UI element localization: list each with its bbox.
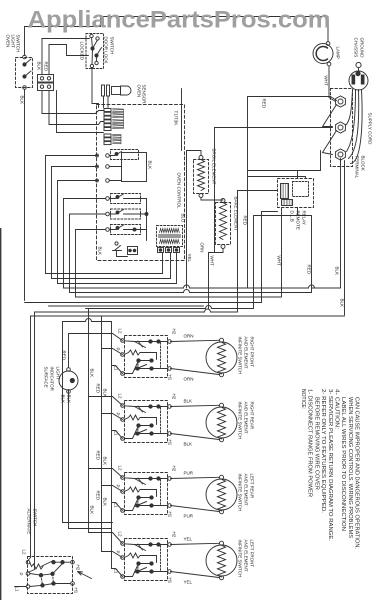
wire feeder vertical A bbox=[88, 309, 90, 533]
svg-text:TERMINAL: TERMINAL bbox=[355, 156, 360, 179]
svg-text:YEL: YEL bbox=[187, 254, 192, 263]
svg-text:SUPPLY CORD: SUPPLY CORD bbox=[368, 113, 373, 146]
wires D.L.B relay feeds bbox=[238, 151, 321, 191]
svg-text:REMOTE: REMOTE bbox=[296, 211, 301, 230]
wires oven sensor to control bbox=[103, 96, 105, 108]
wire to locked contact bbox=[49, 45, 89, 75]
wire nested bus 5 bbox=[70, 214, 312, 293]
svg-text:RED: RED bbox=[44, 62, 49, 72]
terminal crossover diagonals bbox=[323, 105, 337, 155]
wires connector to control connector bbox=[42, 91, 104, 114]
svg-text:PUR: PUR bbox=[184, 514, 194, 519]
oven control connector pins P3 bbox=[104, 134, 121, 145]
svg-text:RED: RED bbox=[62, 351, 67, 361]
scan edge artifact left bbox=[0, 228, 1, 600]
oven sensor bbox=[102, 85, 147, 105]
door lock switch S2 bbox=[80, 34, 115, 69]
element left rear R5 bbox=[206, 474, 255, 514]
svg-text:SURFACE: SURFACE bbox=[44, 367, 49, 388]
svg-text:SWITCH: SWITCH bbox=[33, 509, 38, 527]
svg-text:BLK: BLK bbox=[61, 395, 66, 404]
svg-text:LAMP: LAMP bbox=[336, 47, 341, 59]
wire nested bus 6 bbox=[76, 230, 282, 298]
arrow to alternate switch bbox=[78, 572, 92, 579]
oven control transformer T1 bbox=[157, 226, 183, 253]
svg-text:BLK: BLK bbox=[103, 457, 108, 466]
svg-text:L2: L2 bbox=[22, 550, 27, 556]
svg-text:BLK: BLK bbox=[103, 389, 108, 398]
wire relay bottoms collector bbox=[254, 216, 298, 309]
svg-text:H2: H2 bbox=[172, 329, 177, 335]
wire broil top loop YEL bbox=[187, 151, 202, 289]
svg-text:H1: H1 bbox=[168, 440, 173, 446]
svg-text:H1: H1 bbox=[74, 588, 79, 594]
wire lamp WHT down bbox=[324, 66, 336, 102]
svg-text:BLK: BLK bbox=[37, 62, 42, 71]
element right front R3 bbox=[206, 337, 255, 377]
svg-text:SENSOR: SENSOR bbox=[142, 85, 147, 105]
svg-text:BLK: BLK bbox=[20, 96, 25, 105]
svg-text:H1: H1 bbox=[168, 512, 173, 518]
wire surface light top bbox=[69, 334, 123, 368]
svg-text:ORN: ORN bbox=[184, 334, 194, 339]
svg-text:BLK: BLK bbox=[103, 498, 108, 507]
wire feeder vertical D pair bbox=[63, 322, 113, 529]
surface indicator light DS2 bbox=[44, 351, 79, 404]
wire nested bus 2 bbox=[52, 167, 171, 279]
svg-text:INFINITE SWITCH: INFINITE SWITCH bbox=[238, 402, 243, 440]
infinite switch left rear S6 bbox=[114, 466, 177, 518]
wire BLK terminal down right side bbox=[312, 159, 341, 289]
svg-text:RELAY: RELAY bbox=[302, 211, 307, 225]
wire L1 BLK right side down bbox=[340, 161, 345, 316]
svg-text:BLK: BLK bbox=[335, 267, 340, 276]
svg-text:INFINITE SWITCH: INFINITE SWITCH bbox=[238, 540, 243, 578]
infinite switch right rear S5 bbox=[114, 394, 177, 446]
svg-text:CHASSIS: CHASSIS bbox=[354, 38, 359, 58]
wire broil bottom to bake top bbox=[201, 198, 223, 201]
svg-text:LIGHT: LIGHT bbox=[11, 35, 16, 49]
svg-text:AND ELEMENT: AND ELEMENT bbox=[244, 337, 249, 369]
svg-text:WHT: WHT bbox=[277, 256, 282, 266]
svg-text:GROUND: GROUND bbox=[360, 38, 365, 59]
element right rear R4 bbox=[206, 402, 255, 442]
svg-text:BLK: BLK bbox=[184, 442, 193, 447]
svg-text:3- SERVICER PLEASE RETURN DIAG: 3- SERVICER PLEASE RETURN DIAGRAM TO RAN… bbox=[327, 389, 333, 541]
svg-text:RED: RED bbox=[262, 99, 267, 109]
wire BLK from oven light switch down left side bbox=[20, 89, 25, 300]
svg-text:BLK: BLK bbox=[98, 247, 103, 256]
svg-text:YEL: YEL bbox=[184, 580, 193, 585]
svg-text:L2: L2 bbox=[118, 532, 123, 538]
wires YEL to element left front bbox=[171, 537, 220, 585]
oven control module A1 bbox=[97, 105, 186, 261]
oven control connector pins P1 bbox=[104, 109, 124, 131]
wires ORN to element right front bbox=[171, 334, 220, 382]
svg-text:BLOCK: BLOCK bbox=[361, 156, 366, 171]
svg-text:RED: RED bbox=[96, 451, 101, 461]
svg-text:BLK: BLK bbox=[67, 395, 72, 404]
svg-text:H2: H2 bbox=[76, 565, 81, 571]
wires PUR to element left rear bbox=[171, 471, 220, 519]
hop mark bus 308 bbox=[206, 306, 212, 309]
svg-text:RIGHT FRONT: RIGHT FRONT bbox=[250, 337, 255, 368]
svg-text:BLK: BLK bbox=[90, 369, 95, 378]
svg-text:1- DISCONNECT RANGE FROM POWER: 1- DISCONNECT RANGE FROM POWER bbox=[307, 389, 313, 497]
svg-text:P: P bbox=[116, 485, 121, 488]
wire nested bus 3 bbox=[58, 181, 177, 284]
svg-text:OVEN: OVEN bbox=[6, 35, 11, 48]
svg-text:AppliancePartsPros.com: AppliancePartsPros.com bbox=[28, 7, 331, 34]
svg-text:H1: H1 bbox=[168, 578, 173, 584]
element left front R6 bbox=[206, 540, 255, 580]
svg-text:RIGHT REAR: RIGHT REAR bbox=[250, 402, 255, 430]
svg-text:L2: L2 bbox=[118, 394, 123, 400]
svg-text:INFINITE SWITCH: INFINITE SWITCH bbox=[238, 337, 243, 375]
svg-text:INFINITE SWITCH: INFINITE SWITCH bbox=[238, 474, 243, 512]
wire feeder vertical B bbox=[101, 316, 103, 552]
infinite switch right front S4 bbox=[114, 329, 177, 381]
svg-text:LIGHT: LIGHT bbox=[56, 367, 61, 381]
svg-text:H1: H1 bbox=[168, 375, 173, 381]
wire nested bus 4 bbox=[64, 199, 339, 289]
broil element R1 bbox=[194, 149, 217, 198]
wire feeder vertical C bbox=[111, 322, 113, 569]
svg-text:AND ELEMENT: AND ELEMENT bbox=[244, 540, 249, 572]
svg-text:L1: L1 bbox=[15, 587, 20, 593]
svg-text:OVEN CONTROL: OVEN CONTROL bbox=[177, 173, 182, 210]
svg-text:BLK: BLK bbox=[148, 161, 153, 170]
svg-text:RED: RED bbox=[307, 265, 312, 275]
svg-text:BEFORE REMOVING WIRE COVER: BEFORE REMOVING WIRE COVER bbox=[313, 397, 319, 490]
infinite switch left front S7 bbox=[114, 532, 177, 584]
oven light switch S1 bbox=[6, 35, 33, 90]
wires feeders left front bbox=[89, 533, 123, 577]
svg-text:RED: RED bbox=[96, 491, 101, 501]
wire door lock to control bbox=[92, 68, 99, 108]
svg-text:H2: H2 bbox=[172, 532, 177, 538]
svg-text:LEFT REAR: LEFT REAR bbox=[250, 474, 255, 499]
svg-text:SWITCH: SWITCH bbox=[16, 35, 21, 53]
hop marks bus 4 bbox=[184, 285, 315, 288]
svg-text:P: P bbox=[116, 348, 121, 351]
svg-text:OVEN: OVEN bbox=[137, 85, 142, 98]
svg-text:WHT: WHT bbox=[324, 76, 329, 86]
svg-text:RED: RED bbox=[96, 384, 101, 394]
svg-text:4- CAUTION:: 4- CAUTION: bbox=[334, 389, 340, 429]
oven control door switch contacts bbox=[113, 242, 138, 257]
svg-text:DOOR LOCK: DOOR LOCK bbox=[104, 37, 109, 64]
svg-text:H2: H2 bbox=[172, 394, 177, 400]
D.L.B. remote relay K5 bbox=[278, 179, 314, 230]
wire bake bottom WHT bbox=[209, 128, 224, 309]
bake element R2 bbox=[200, 197, 239, 253]
svg-text:ORN: ORN bbox=[200, 243, 205, 253]
svg-text:H2: H2 bbox=[172, 466, 177, 472]
wire D.L.B relay RED down bbox=[298, 208, 312, 293]
svg-text:BLK: BLK bbox=[90, 506, 95, 515]
wire bus row 311.5 bbox=[35, 191, 238, 313]
svg-text:INDICATOR: INDICATOR bbox=[50, 367, 55, 392]
wire bus row 321 bbox=[63, 321, 112, 323]
wires feeders left rear bbox=[89, 469, 123, 511]
wire to door lock switch bbox=[42, 39, 90, 75]
oven control relays K2 K3 K4 bbox=[98, 194, 149, 256]
svg-text:LABEL ALL WIRES PRIOR TO DISCO: LABEL ALL WIRES PRIOR TO DISCONNECTION bbox=[340, 397, 346, 531]
svg-text:D.L.B: D.L.B bbox=[290, 211, 295, 222]
terminal block TB1 bbox=[331, 89, 366, 179]
wires BLK to element right rear bbox=[171, 399, 220, 447]
svg-text:P: P bbox=[116, 551, 121, 554]
svg-text:L2: L2 bbox=[118, 329, 123, 335]
wire nested bus 1 bbox=[46, 156, 163, 274]
wire top bus to lamp bbox=[25, 17, 329, 42]
wires feeders right rear bbox=[89, 397, 123, 439]
wire RED terminal loop bbox=[243, 97, 337, 289]
hop mark bus 5 bbox=[184, 290, 190, 293]
svg-text:YEL: YEL bbox=[184, 537, 193, 542]
svg-text:L2: L2 bbox=[118, 466, 123, 472]
svg-text:BROIL ELEMENT: BROIL ELEMENT bbox=[212, 149, 217, 185]
wire oven light switch feed bbox=[24, 27, 26, 56]
svg-text:ALTERNATE: ALTERNATE bbox=[27, 509, 32, 535]
chassis ground receptacle bbox=[349, 38, 368, 91]
svg-text:ORN: ORN bbox=[184, 377, 194, 382]
wire L1 stub alternate switch bbox=[15, 586, 27, 588]
wire long left BLK bus bbox=[25, 212, 278, 303]
svg-text:AND ELEMENT: AND ELEMENT bbox=[244, 402, 249, 434]
svg-text:BLK: BLK bbox=[340, 299, 345, 308]
wire bus row 308 bbox=[86, 308, 254, 310]
svg-text:WHT: WHT bbox=[210, 256, 215, 266]
wire color labels feeder column bbox=[90, 369, 108, 515]
svg-text:CAN CAUSE IMPROPER AND DANGERO: CAN CAUSE IMPROPER AND DANGEROUS OPERATI… bbox=[354, 397, 360, 549]
svg-text:P: P bbox=[116, 413, 121, 416]
svg-text:BLU: BLU bbox=[181, 214, 186, 223]
wire D.L.B relay WHT down bbox=[277, 208, 282, 298]
svg-text:PUR: PUR bbox=[184, 471, 194, 476]
svg-text:SWITCH: SWITCH bbox=[110, 37, 115, 55]
oven lamp DS1 bbox=[313, 42, 341, 66]
svg-text:BLK: BLK bbox=[184, 399, 193, 404]
svg-text:2- REFER ONLY TO FEATURES EQUI: 2- REFER ONLY TO FEATURES EQUIPPED. bbox=[320, 389, 326, 513]
connector plug P2 (BLK/RED) bbox=[37, 62, 54, 91]
wire terminal 2 feed bbox=[215, 127, 333, 129]
wire bus row 305.5 bbox=[49, 305, 204, 307]
svg-text:AND ELEMENT: AND ELEMENT bbox=[244, 474, 249, 506]
supply cord wires bbox=[346, 90, 373, 164]
hop mark bus 311 bbox=[205, 309, 211, 312]
svg-text:WHEN SERVICING CONTROLS. WIRIN: WHEN SERVICING CONTROLS. WIRING PROBLEMS bbox=[347, 397, 353, 539]
notice text block bbox=[300, 389, 360, 549]
svg-text:LOCKED: LOCKED bbox=[80, 42, 85, 61]
wires feeders right front bbox=[102, 349, 123, 374]
hop mark bus 321 bbox=[86, 319, 92, 322]
svg-text:RED: RED bbox=[243, 216, 248, 226]
svg-text:LEFT FRONT: LEFT FRONT bbox=[250, 540, 255, 568]
wire T1 vertical bbox=[181, 89, 183, 151]
svg-text:NOTICE:: NOTICE: bbox=[300, 389, 306, 409]
svg-text:T1/T3K: T1/T3K bbox=[174, 111, 179, 126]
wire bus row 315.5 bbox=[31, 315, 345, 317]
alternate switch S8 bbox=[15, 509, 81, 594]
wire left verticals to lower section bbox=[28, 316, 31, 561]
svg-text:P: P bbox=[19, 573, 24, 576]
oven control relay K1 with loop bbox=[96, 150, 153, 183]
